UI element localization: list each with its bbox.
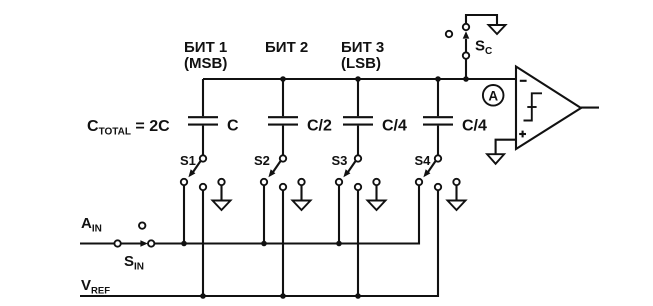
wire: bottom plate lead C1 xyxy=(202,126,204,156)
pin: S4 V_REF throw contact xyxy=(435,184,441,190)
capacitor plate (top) C4 xyxy=(423,116,453,118)
svg-text:VREF: VREF xyxy=(81,277,110,297)
wire: S3 A_IN throw to A_IN bus xyxy=(338,185,340,243)
wire: S4 V_REF throw stub xyxy=(437,190,439,192)
comparator hysteresis symbol xyxy=(524,93,543,120)
wire: top plate bus to comparator inverting input xyxy=(203,78,516,80)
wire: S3 ground stem xyxy=(375,185,377,200)
pin: S2 A_IN throw contact xyxy=(261,179,267,185)
wire: bottom plate lead C3 xyxy=(357,126,359,156)
svg-text:БИТ 2: БИТ 2 xyxy=(265,39,308,56)
svg-text:CTOTAL = 2C: CTOTAL = 2C xyxy=(87,118,170,138)
svg-text:C/2: C/2 xyxy=(307,118,332,135)
pin: S2 ground throw contact xyxy=(298,179,304,185)
wire: S4 ground stem xyxy=(455,185,457,200)
capacitor C3 value C/4 xyxy=(343,79,407,156)
svg-text:S2: S2 xyxy=(254,153,270,168)
pin: S4 A_IN throw contact xyxy=(416,179,422,185)
node: junction on A_IN bus at S2 xyxy=(261,241,267,247)
capacitor plate (bottom) C2 xyxy=(268,124,298,126)
node A (comparator summing node) xyxy=(483,85,504,106)
ground symbol at comparator non-inverting input xyxy=(487,154,504,164)
node: junction on V_REF bus at S2 xyxy=(280,293,286,299)
pin: S1 A_IN throw contact xyxy=(181,179,187,185)
svg-text:(LSB): (LSB) xyxy=(341,55,381,72)
capacitor plate (bottom) C3 xyxy=(343,124,373,126)
arrowhead of S_IN arm xyxy=(140,240,147,247)
ground symbol at S_C xyxy=(489,25,506,34)
pin: S3 V_REF throw contact xyxy=(355,184,361,190)
node: junction on A_IN bus at S1 xyxy=(181,241,187,247)
node: junction on V_REF bus at S1 xyxy=(200,293,206,299)
svg-text:БИТ 1: БИТ 1 xyxy=(184,39,227,56)
capacitor plate (bottom) C4 xyxy=(423,124,453,126)
pin: S3 pole contact xyxy=(355,155,361,161)
pin: S2 pole contact xyxy=(280,155,286,161)
switch S3 (bit switch, pole from C3 bottom plate) xyxy=(332,153,386,299)
pin: S_C pole contact xyxy=(463,52,469,58)
svg-text:C/4: C/4 xyxy=(462,118,487,135)
svg-text:A: A xyxy=(488,88,498,103)
wire: S1 arm xyxy=(192,160,201,173)
wire: S4 arm xyxy=(427,160,436,173)
pin: S1 pole contact xyxy=(200,155,206,161)
capacitor C2 value C/2 xyxy=(268,79,332,156)
node: top bus junction at C3 xyxy=(355,76,361,82)
svg-text:SC: SC xyxy=(475,38,492,58)
ground symbol at S2 xyxy=(293,201,311,211)
capacitor plate (top) C1 xyxy=(188,116,218,118)
svg-text:C/4: C/4 xyxy=(382,118,407,135)
wire: S3 arm xyxy=(347,160,356,173)
wire: S_C throw to ground xyxy=(466,15,497,25)
svg-text:S3: S3 xyxy=(332,153,348,168)
pin: inverting input marker xyxy=(520,80,527,82)
node: junction on V_REF bus at S3 xyxy=(355,293,361,299)
svg-text:C: C xyxy=(227,118,239,135)
svg-text:S4: S4 xyxy=(415,153,432,168)
wire: comparator output xyxy=(581,107,599,109)
pin: S_C open throw contact xyxy=(446,31,452,37)
arrowhead of S_C arm xyxy=(463,31,470,38)
svg-text:(MSB): (MSB) xyxy=(184,55,227,72)
wire: S2 ground stem xyxy=(300,185,302,200)
node: top bus junction at C2 xyxy=(280,76,286,82)
arrowhead of S4 arm xyxy=(423,169,430,177)
capacitor C1 value C xyxy=(188,79,239,156)
wire: S1 ground stem xyxy=(220,185,222,200)
capacitor C4 value C/4 xyxy=(423,79,487,156)
wire: bottom plate lead C2 xyxy=(282,126,284,156)
node: top bus junction at S_C xyxy=(463,76,469,82)
wire: top plate lead C1 xyxy=(202,79,204,116)
wire: S_C arm xyxy=(465,39,467,52)
arrowhead of S1 arm xyxy=(188,169,195,177)
switch S_C (comparator zeroing switch) xyxy=(446,15,506,79)
wire: A_IN bus from S_IN to S4 left throw xyxy=(154,185,419,243)
wire: S1 V_REF throw to V_REF bus xyxy=(202,190,204,296)
wire: S2 arm xyxy=(272,160,281,173)
svg-text:БИТ 3: БИТ 3 xyxy=(341,39,384,56)
pin: S1 ground throw contact xyxy=(218,179,224,185)
pin: S4 pole contact xyxy=(435,155,441,161)
wire: S3 V_REF throw to V_REF bus xyxy=(357,190,359,296)
wire: S2 V_REF throw to V_REF bus xyxy=(282,190,284,296)
node: junction on A_IN bus at S3 xyxy=(336,241,342,247)
wire: bottom plate lead C4 xyxy=(437,126,439,156)
pin: S_IN right contact xyxy=(148,240,154,246)
pin: S_IN left contact xyxy=(114,240,120,246)
arrowhead of S3 arm xyxy=(343,169,350,177)
wire: top plate lead C2 xyxy=(282,79,284,116)
pin: S4 ground throw contact xyxy=(453,179,459,185)
op-amp U1 (comparator) xyxy=(516,67,581,150)
switch S2 (bit switch, pole from C2 bottom plate) xyxy=(254,153,311,299)
wire: A_IN input segment xyxy=(80,242,115,244)
ground symbol at S3 xyxy=(368,201,386,211)
switch S1 (bit switch, pole from C1 bottom plate) xyxy=(180,153,231,299)
pin: S3 A_IN throw contact xyxy=(336,179,342,185)
pin: S3 ground throw contact xyxy=(373,179,379,185)
wire: S1 A_IN throw to A_IN bus xyxy=(183,185,185,243)
wire: S2 A_IN throw to A_IN bus xyxy=(263,185,265,243)
wire: top plate lead C4 xyxy=(437,79,439,116)
svg-text:AIN: AIN xyxy=(81,215,102,235)
capacitor plate (bottom) C1 xyxy=(188,124,218,126)
ground symbol at S4 xyxy=(448,201,466,211)
pin: non-inverting input marker xyxy=(519,133,526,135)
svg-text:SIN: SIN xyxy=(124,253,144,273)
pin: S_C ground throw contact xyxy=(463,24,469,30)
wire: S_IN arm xyxy=(121,242,141,244)
wire: non-inverting input to ground xyxy=(496,140,516,155)
wire: V_REF bus up to S4 center throw xyxy=(80,190,438,296)
wire: S_C pole to top bus xyxy=(465,59,467,79)
capacitor plate (top) C2 xyxy=(268,116,298,118)
ground symbol at S1 xyxy=(213,201,231,211)
pin: S_IN open throw contact xyxy=(139,222,145,228)
switch S_IN (input sampling switch) xyxy=(114,222,154,272)
comparator triangle body xyxy=(516,67,581,150)
capacitor plate (top) C3 xyxy=(343,116,373,118)
switch S4 (bit switch, pole from C4 bottom plate) xyxy=(415,153,466,210)
node: top bus junction at C4 xyxy=(435,76,441,82)
pin: S1 V_REF throw contact xyxy=(200,184,206,190)
svg-text:S1: S1 xyxy=(180,153,196,168)
arrowhead of S2 arm xyxy=(268,169,275,177)
wire: top plate lead C3 xyxy=(357,79,359,116)
pin: S2 V_REF throw contact xyxy=(280,184,286,190)
